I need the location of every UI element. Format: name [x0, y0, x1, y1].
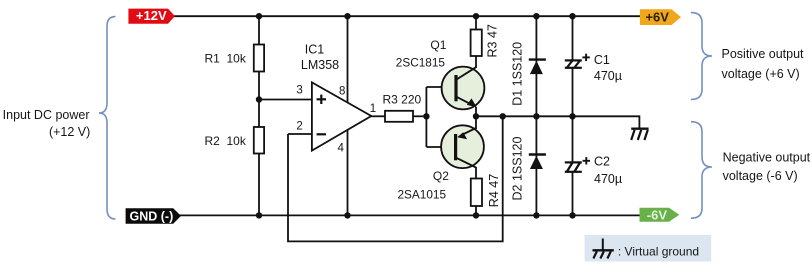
capacitor C1 470u: [565, 53, 622, 83]
node top rail D1: [533, 13, 539, 19]
svg-text:D2 1SS120: D2 1SS120: [511, 137, 525, 201]
svg-text:-6V: -6V: [647, 207, 668, 222]
wire D1 D2 column: [535, 16, 537, 215]
node GND rail R4: [473, 212, 479, 218]
svg-text:R3 220: R3 220: [383, 92, 422, 106]
wire +12V top rail: [172, 15, 641, 17]
node top rail R3b: [473, 13, 479, 19]
svg-text:R4 47: R4 47: [487, 174, 501, 207]
flag -6V: [640, 207, 680, 222]
svg-text:LM358: LM358: [301, 58, 339, 72]
wire C1 C2 column: [572, 16, 574, 60]
node GND rail C2: [569, 212, 575, 218]
svg-text:R1 10k: R1 10k: [205, 52, 247, 66]
legend box: [585, 235, 712, 262]
diode D2 1SS120: [511, 137, 546, 201]
wire Q1 emitter to mid rail: [475, 107, 477, 116]
brace negative output: [691, 122, 712, 219]
svg-text:: Virtual ground: : Virtual ground: [618, 244, 699, 258]
wire virtual-ground mid rail: [476, 116, 639, 128]
resistor R2: [205, 127, 265, 154]
wire Q1 base stub: [426, 86, 455, 88]
svg-text:3: 3: [296, 85, 302, 97]
svg-text:(+12 V): (+12 V): [49, 125, 90, 139]
wire op-amp output to R3: [371, 115, 385, 117]
wire feedback loop pin2 to virtual ground: [288, 116, 503, 241]
svg-text:Negative output: Negative output: [723, 150, 811, 164]
capacitor C2 470u: [565, 154, 622, 186]
resistor R3 47: [471, 24, 500, 57]
svg-text:R2 10k: R2 10k: [205, 134, 247, 148]
resistor R3 220: [383, 92, 422, 121]
node top rail C1: [569, 13, 575, 19]
svg-text:voltage (+6 V): voltage (+6 V): [722, 67, 800, 81]
ground legend symbol: [593, 239, 614, 259]
svg-text:Q2: Q2: [433, 169, 449, 183]
wire R3b to Q1 collector: [475, 56, 477, 68]
wire GND bottom rail: [179, 214, 641, 216]
transistor Q2 2SA1015: [441, 125, 484, 168]
wire Q2 collector to R4: [475, 167, 477, 179]
node GND rail pin4: [344, 212, 350, 218]
node top rail R1: [256, 13, 262, 19]
diode D1 1SS120: [511, 42, 546, 106]
resistor R4 47: [471, 174, 501, 207]
svg-text:2SC1815: 2SC1815: [396, 56, 446, 70]
wire R3b column top: [475, 16, 477, 29]
node divider tap: [256, 96, 262, 102]
brace input left: [99, 17, 116, 219]
node feedback mid rail: [500, 113, 506, 119]
svg-text:GND (-): GND (-): [130, 209, 174, 223]
node mid rail D1: [533, 113, 539, 119]
wire op-amp pin2 input: [288, 133, 312, 135]
svg-text:D1 1SS120: D1 1SS120: [511, 42, 525, 106]
svg-text:470µ: 470µ: [594, 69, 622, 83]
wire mid rail to Q2 emitter: [475, 116, 477, 129]
wire base node vertical: [425, 87, 427, 147]
svg-text:470µ: 470µ: [594, 172, 622, 186]
node GND rail D2: [533, 212, 539, 218]
svg-text:2: 2: [296, 120, 302, 132]
node base junction: [423, 113, 429, 119]
flag +12V: [128, 8, 175, 24]
transistor Q1 2SC1815: [442, 67, 485, 110]
svg-text:IC1: IC1: [305, 42, 325, 56]
svg-text:+12V: +12V: [136, 8, 167, 23]
flag +6V: [640, 9, 681, 25]
svg-text:8: 8: [339, 86, 345, 98]
wire Q2 base stub: [426, 146, 455, 148]
svg-text:C1: C1: [594, 53, 610, 67]
wire R4 to -6V rail: [475, 206, 477, 215]
svg-text:Q1: Q1: [430, 38, 446, 52]
svg-text:Input DC power: Input DC power: [3, 108, 90, 122]
svg-text:+6V: +6V: [645, 10, 669, 25]
svg-text:voltage (-6 V): voltage (-6 V): [723, 169, 798, 183]
brace positive output: [691, 13, 712, 100]
wire op-amp pin4 to GND: [347, 130, 349, 216]
svg-text:Positive output: Positive output: [722, 47, 805, 61]
node emitter junction: [473, 113, 479, 119]
node mid rail C1: [569, 113, 575, 119]
wire R3 to base node: [413, 115, 426, 117]
svg-text:1: 1: [370, 103, 376, 115]
resistor R1: [205, 45, 265, 72]
ground virtual-ground symbol: [631, 129, 648, 140]
svg-text:4: 4: [338, 143, 345, 155]
flag GND (-): [126, 208, 181, 224]
wire op-amp pin8 to +12V: [347, 16, 349, 103]
svg-text:C2: C2: [594, 154, 610, 168]
node GND rail R2: [256, 212, 262, 218]
svg-text:R3 47: R3 47: [486, 24, 500, 57]
wire R1-R2 divider column: [258, 16, 260, 44]
svg-text:2SA1015: 2SA1015: [398, 187, 447, 201]
node top rail pin8: [344, 13, 350, 19]
wire op-amp pin3 input: [259, 99, 312, 101]
op-amp U1 LM358: [312, 82, 371, 150]
